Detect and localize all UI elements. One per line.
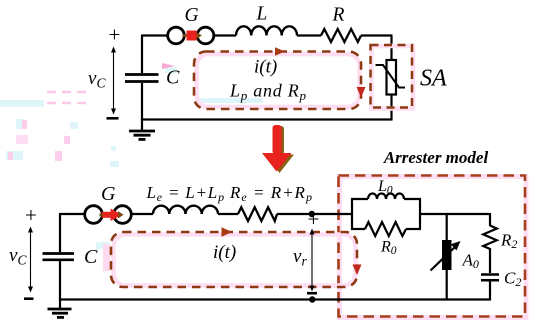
arrester dashed box [339, 176, 526, 317]
L0 R0 parallel block [351, 194, 421, 236]
v_r minus [307, 292, 317, 295]
spark symbol bottom (red arrow) [102, 212, 112, 218]
loop arrow right-pointing top edge [222, 227, 233, 236]
big red arrow down [262, 125, 294, 173]
capacitor C (bottom) [43, 254, 75, 260]
svg-text:L: L [256, 4, 268, 25]
R2 branch wires [489, 213, 491, 301]
bottom edge with R0 zigzag [351, 228, 365, 230]
dimension line [30, 231, 32, 288]
svg-text:Arrester model: Arrester model [383, 148, 489, 167]
wire top rail segments [141, 35, 393, 121]
loop arrow down-pointing on right edge [357, 87, 366, 98]
varistor (top) body [387, 60, 397, 95]
spark gap G (top): circles [168, 27, 185, 44]
varistor diagonal [376, 65, 406, 88]
SA box pink halo [372, 46, 414, 109]
capacitor C2 [481, 275, 499, 281]
v_r dimension line [311, 233, 313, 287]
svg-text:+: + [25, 203, 37, 227]
A0 branch [446, 214, 448, 301]
pink band left of bottom loop [103, 244, 110, 271]
current loop i(t) bottom (dashed) [111, 232, 357, 287]
bottom rail [59, 298, 490, 300]
pink halo of bottom loop [114, 235, 356, 286]
pink halo of top current loop [197, 54, 360, 107]
A0 diagonal arrow [431, 248, 455, 271]
svg-text:SA: SA [420, 66, 447, 92]
svg-text:G: G [101, 183, 116, 205]
inductor L (top) [236, 26, 297, 35]
loop arrow right-pointing on top edge [275, 47, 285, 56]
svg-text:R: R [332, 5, 345, 26]
dimension line with arrows [113, 51, 115, 110]
cyan artifact blobs [0, 67, 263, 249]
wires bottom circuit [59, 213, 490, 301]
resistor R2 (vertical zigzag) [483, 226, 497, 252]
svg-text:+: + [308, 207, 320, 231]
ground (bottom) [48, 300, 72, 318]
varistor A0 body (filled) [442, 240, 452, 270]
top rail [60, 213, 85, 215]
wire left vertical [141, 35, 143, 74]
wire right vertical [390, 36, 392, 61]
left vertical [59, 213, 61, 252]
SA dashed box [371, 45, 413, 108]
top edge with L0 humps [351, 198, 368, 200]
pink ghost arrow near C [162, 63, 175, 69]
capacitor C (top) [125, 75, 159, 82]
spark gap G (bottom): circles [85, 206, 103, 224]
faint artifact blobs left margin [6, 119, 119, 167]
node dot top [309, 211, 315, 217]
minus sign [107, 117, 119, 120]
ground (top) [129, 120, 155, 140]
minus [24, 297, 34, 300]
spark symbol (red) [183, 34, 188, 37]
loop arrow down-pointing right edge [353, 265, 362, 276]
left bar [351, 198, 353, 230]
arrester box pink halo [340, 177, 527, 318]
current loop i(t) top (dashed) [194, 52, 361, 110]
svg-text:Lp and Rp: Lp and Rp [229, 81, 307, 104]
node dot bottom [309, 296, 315, 302]
wire bottom rail [141, 118, 393, 120]
svg-text:i(t): i(t) [213, 242, 236, 263]
resistor Re (bottom) [238, 207, 277, 221]
svg-text:C: C [84, 246, 98, 268]
resistor R (top) [321, 29, 361, 42]
right bar [419, 198, 421, 230]
svg-text:G: G [185, 5, 199, 26]
svg-text:i(t): i(t) [254, 57, 277, 78]
svg-text:C: C [166, 67, 180, 89]
pink ghost dashes left margin [2, 92, 92, 103]
inductor Le (bottom) [153, 206, 218, 214]
svg-text:+: + [109, 23, 121, 47]
